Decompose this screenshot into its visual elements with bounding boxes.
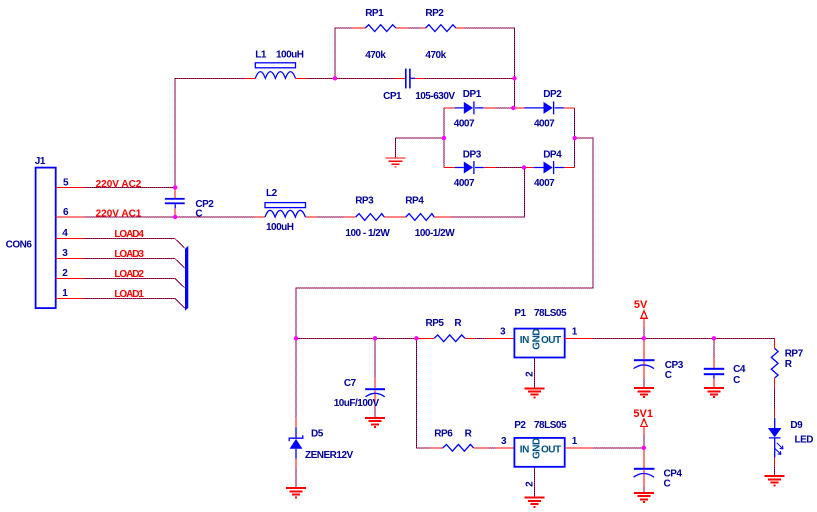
bus bar xyxy=(185,246,188,311)
wire: P2 out to 5V1 junction xyxy=(593,447,644,449)
svg-text:LOAD3: LOAD3 xyxy=(114,249,144,260)
resistor RP1 xyxy=(353,27,408,29)
svg-text:4007: 4007 xyxy=(454,118,475,129)
svg-text:100-1/2W: 100-1/2W xyxy=(415,228,455,239)
wire: 5V1 stem lower xyxy=(643,435,645,448)
svg-text:C: C xyxy=(664,479,671,490)
diode DP4 xyxy=(524,167,575,169)
wire: RP6 branch down xyxy=(416,338,429,448)
svg-text:5V: 5V xyxy=(634,299,648,311)
svg-text:220V AC1: 220V AC1 xyxy=(96,209,142,220)
svg-text:4007: 4007 xyxy=(534,178,555,189)
wire: CP4 below xyxy=(643,486,645,492)
svg-text:78LS05: 78LS05 xyxy=(534,420,567,431)
svg-text:IN: IN xyxy=(520,444,529,455)
svg-text:4007: 4007 xyxy=(454,178,475,189)
resistor RP2 xyxy=(420,27,464,29)
resistor RP4 xyxy=(434,216,451,218)
svg-text:DP1: DP1 xyxy=(463,89,482,100)
inductor L2 xyxy=(255,216,317,218)
svg-text:P1: P1 xyxy=(514,308,526,319)
wire: RP1 branch up-left xyxy=(335,28,353,78)
svg-text:RP1: RP1 xyxy=(365,8,384,19)
J1 pin 1 xyxy=(56,297,85,299)
capacitor CP1 xyxy=(395,77,424,79)
svg-text:LOAD1: LOAD1 xyxy=(114,289,144,300)
wire: vertical from pin5 junction up and across top to L1 xyxy=(175,78,244,187)
svg-text:RP4: RP4 xyxy=(405,196,424,207)
wire: RP5 to P1 pin3 xyxy=(475,337,486,339)
svg-text:C: C xyxy=(195,209,202,220)
wire: bridge left edge xyxy=(443,108,445,168)
svg-text:C: C xyxy=(665,370,672,381)
svg-text:C: C xyxy=(733,375,740,386)
svg-text:C7: C7 xyxy=(344,378,357,389)
wire: bridge bottom mid down to RP4 xyxy=(451,168,525,218)
wire: J1 pin5 to CP2 junction xyxy=(84,186,175,188)
svg-text:100uH: 100uH xyxy=(276,50,304,61)
svg-text:C4: C4 xyxy=(733,364,746,375)
wire: P2 gnd stem xyxy=(534,467,536,498)
svg-text:5V1: 5V1 xyxy=(633,408,653,420)
wire: D9 to ground xyxy=(774,467,776,476)
svg-text:DP3: DP3 xyxy=(463,150,482,161)
svg-text:DP2: DP2 xyxy=(543,89,562,100)
regulator P1 xyxy=(514,329,564,358)
svg-text:470k: 470k xyxy=(365,50,386,61)
wire: LOAD4 xyxy=(84,238,184,248)
svg-text:CP1: CP1 xyxy=(383,91,402,102)
wire: LOAD3 xyxy=(84,258,184,268)
wire: 12V rail xyxy=(296,337,416,339)
wire: P1 out to RP7 corner xyxy=(593,338,775,348)
svg-text:105-630V: 105-630V xyxy=(415,91,455,102)
svg-text:GND: GND xyxy=(531,329,542,350)
ground below C7 xyxy=(365,418,385,427)
ground below D5 xyxy=(286,488,306,497)
resistor RP5 xyxy=(416,337,514,339)
svg-text:78LS05: 78LS05 xyxy=(534,308,567,319)
capacitor CP3 xyxy=(643,338,645,378)
junction dots xyxy=(173,185,177,189)
svg-text:LOAD2: LOAD2 xyxy=(114,269,144,280)
wire: RP6 to P2 pin3 xyxy=(488,447,495,449)
svg-text:4007: 4007 xyxy=(534,118,555,129)
wire: RP7 to D9 xyxy=(774,388,776,408)
svg-text:DP4: DP4 xyxy=(543,150,562,161)
wire: C4 stem xyxy=(713,338,715,358)
svg-text:RP2: RP2 xyxy=(425,8,444,19)
svg-text:LOAD4: LOAD4 xyxy=(114,229,144,240)
svg-text:220V AC2: 220V AC2 xyxy=(96,179,142,190)
wire: C7 below xyxy=(374,405,376,417)
svg-text:100 - 1/2W: 100 - 1/2W xyxy=(345,228,390,239)
wire: P1 gnd stem xyxy=(534,358,536,389)
diode DP3 xyxy=(444,167,496,169)
ground below P1 xyxy=(525,388,545,397)
wire: RP2 right down to bridge top xyxy=(464,28,514,108)
svg-text:RP6: RP6 xyxy=(434,429,453,440)
J1 pin 6 xyxy=(56,216,85,218)
diode DP1 xyxy=(444,107,496,109)
J1 pin 5 xyxy=(56,186,85,188)
inductor L1 xyxy=(245,77,308,79)
LED D9 xyxy=(774,408,776,468)
wire: bridge left mid to ground xyxy=(396,138,444,158)
svg-text:L2: L2 xyxy=(266,188,278,199)
capacitor CP2 xyxy=(174,187,176,217)
wire: L1 right to RP1 branch junction to CP1 xyxy=(307,77,395,79)
ground below C4 xyxy=(704,388,724,397)
ground below CP3 xyxy=(634,388,654,397)
svg-text:ZENER12V: ZENER12V xyxy=(305,450,354,461)
svg-text:RP5: RP5 xyxy=(426,318,445,329)
svg-text:100uH: 100uH xyxy=(266,222,294,233)
wire: bridge right edge xyxy=(574,108,576,168)
regulator P2 xyxy=(514,438,564,467)
capacitor C7 xyxy=(374,378,376,405)
svg-text:RP3: RP3 xyxy=(355,196,374,207)
wire: 5V stem lower xyxy=(643,327,645,338)
resistor RP3 xyxy=(344,216,406,218)
ground below D9 xyxy=(765,476,785,485)
wire: LOAD1 xyxy=(84,298,184,308)
svg-text:D5: D5 xyxy=(311,428,324,439)
wire: CP1 right to RP2 junction xyxy=(424,77,514,79)
wire: D5 stem xyxy=(295,338,297,417)
wire: bridge bottom middle xyxy=(496,167,524,169)
svg-text:OUT: OUT xyxy=(541,335,561,346)
svg-text:10uF/100V: 10uF/100V xyxy=(334,398,380,409)
zener D5 xyxy=(295,418,297,469)
ground below CP4 xyxy=(634,493,654,502)
wire: C7 stem xyxy=(374,338,376,378)
J1 pin 3 xyxy=(56,257,85,259)
ground at bridge xyxy=(386,158,406,167)
diode DP2 xyxy=(513,107,574,109)
wire: J1 pin6 run xyxy=(84,216,254,218)
svg-text:GND: GND xyxy=(531,438,542,459)
svg-text:OUT: OUT xyxy=(541,444,561,455)
svg-text:P2: P2 xyxy=(514,420,526,431)
wire: D5 to ground xyxy=(295,469,297,488)
wire: CP3 below xyxy=(643,378,645,388)
svg-text:D9: D9 xyxy=(790,420,803,431)
svg-text:470k: 470k xyxy=(425,50,446,61)
wire: LOAD2 xyxy=(84,278,184,288)
svg-text:LED: LED xyxy=(795,435,814,446)
svg-text:CON6: CON6 xyxy=(6,239,33,250)
capacitor CP4 xyxy=(643,448,645,487)
capacitor C4 xyxy=(713,358,715,388)
connector J1 xyxy=(36,168,56,309)
wire: bridge right mid down and left to rail xyxy=(296,138,593,338)
svg-text:IN: IN xyxy=(520,335,529,346)
resistor RP6 xyxy=(430,447,515,449)
wire: between RP1 and RP2 xyxy=(408,27,421,29)
J1 pin 2 xyxy=(56,277,85,279)
svg-text:L1: L1 xyxy=(255,50,267,61)
J1 pin 4 xyxy=(56,237,85,239)
resistor RP7 xyxy=(774,338,776,388)
ground below P2 xyxy=(525,498,545,507)
wire: bridge top middle xyxy=(496,107,514,109)
svg-text:J1: J1 xyxy=(35,156,46,167)
wire: L2 to RP3 xyxy=(316,216,344,218)
